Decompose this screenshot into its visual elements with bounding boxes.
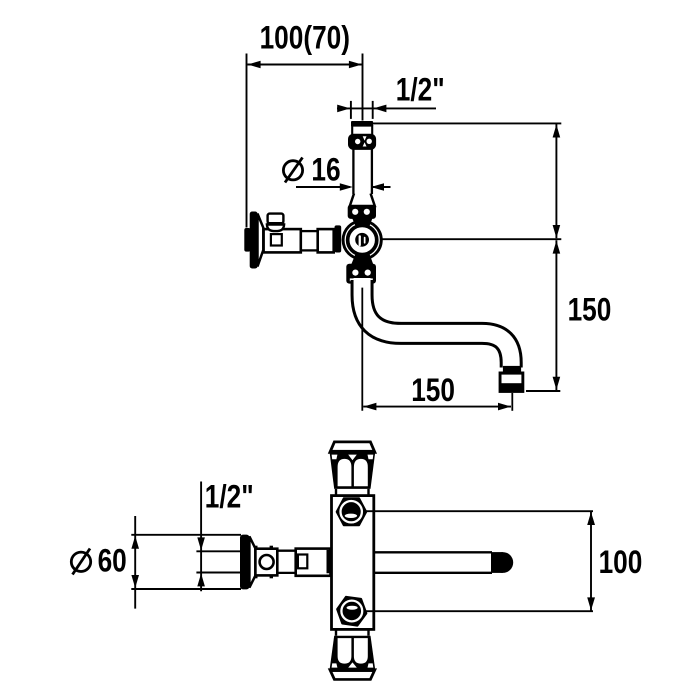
bottom dimension 150 arrow right	[498, 403, 511, 411]
spout pipe walls (top view)	[373, 551, 492, 553]
arm neck lower wall	[302, 249, 318, 251]
stop valve bonnet dome	[267, 225, 284, 232]
flange cone (top view)	[249, 536, 255, 587]
upper hex nut	[337, 499, 366, 526]
dimension 100 arrow lower	[587, 597, 595, 610]
screw slot left	[359, 235, 361, 246]
stop valve corner tabs	[254, 546, 257, 550]
dimension diameter-16 arrow left	[340, 183, 353, 191]
svg-text:60: 60	[98, 544, 127, 579]
dimension 1/2inch (front) tick left	[350, 101, 352, 119]
flange cone	[258, 214, 264, 267]
arm neck upper wall	[302, 230, 318, 232]
arm nut (top view)	[296, 549, 331, 576]
upper collar hole right	[364, 209, 370, 215]
handle neck left	[335, 489, 337, 496]
bottom extension line (spout outlet) to right dimension	[526, 390, 560, 392]
body circle inner ring	[348, 225, 377, 254]
riser pipe walls	[352, 149, 354, 194]
upper collar hole left	[352, 209, 358, 215]
union nut hole left	[355, 139, 360, 144]
aerator ring	[503, 366, 521, 372]
spout tube bore	[362, 278, 511, 368]
screw slot right	[364, 237, 366, 244]
upper hex leader line	[364, 510, 593, 512]
lower collar white stripe	[350, 278, 373, 281]
dimension diameter-60 extension line lower	[131, 588, 241, 590]
dimension diameter-16 symbol	[283, 158, 302, 183]
upper collar	[348, 205, 376, 219]
body circle outer ring	[343, 221, 381, 259]
dimension 100(70) extension line right	[362, 54, 364, 121]
svg-text:1/2": 1/2"	[205, 480, 254, 515]
dimension diameter-60 symbol	[71, 549, 90, 575]
upper collar joint fill	[351, 216, 374, 227]
lower hex leader line	[364, 610, 593, 612]
lower collar joint fill	[351, 254, 374, 265]
dimension 1/2inch (front) tick right	[372, 101, 374, 119]
dimension diameter-60 label	[98, 544, 127, 579]
wall flange plate	[250, 212, 258, 269]
dimension 1/2inch (front) line	[337, 107, 436, 109]
handle side sliver left	[332, 455, 338, 460]
handle side sliver right	[368, 455, 374, 460]
handle neck right	[367, 489, 369, 496]
bottom dimension 150 extension line right	[511, 393, 513, 411]
dimension 1/2inch (front) arrow right	[373, 105, 386, 113]
dimension diameter-16 leader left	[296, 186, 350, 188]
svg-text:150: 150	[568, 293, 612, 328]
arm nut	[318, 229, 334, 252]
union nut thread notch top	[363, 136, 367, 140]
dimension 1/2inch (top view) label	[205, 480, 254, 515]
stop valve body	[264, 229, 301, 252]
center extension line to right dimension	[366, 238, 561, 240]
lower collar hole right	[365, 270, 371, 276]
dimension diameter-16 label	[311, 153, 340, 188]
aerator body	[499, 372, 525, 393]
lower collar hole left	[352, 270, 358, 276]
svg-text:150: 150	[411, 374, 455, 409]
dimension diameter-60 line	[134, 516, 136, 609]
dimension 1/2inch (top view) line	[200, 482, 202, 592]
lower hex nut	[335, 596, 368, 626]
stop valve inner square	[271, 234, 282, 245]
dimension 100(70) extension line left	[246, 54, 248, 228]
dimension 100(70) arrow left	[248, 61, 261, 68]
stop valve body (top view)	[255, 549, 277, 576]
svg-text:16: 16	[311, 153, 340, 188]
dimension diameter-16 arrow right	[371, 183, 384, 191]
aerator white band	[502, 375, 522, 384]
stop valve spindle circle	[260, 555, 274, 569]
screw head center	[355, 233, 369, 247]
inlet pipe upper section walls	[351, 125, 353, 135]
svg-text:100: 100	[599, 546, 643, 581]
dimension diameter-60 arrow lower	[131, 575, 139, 588]
bottom cross handle (mirrored copy)	[330, 629, 376, 679]
arm-body junction bulge (top view)	[327, 550, 338, 573]
union nut thread notch bottom	[363, 142, 367, 146]
dimension 1/2inch (front) label	[396, 73, 445, 108]
bottom dimension 150 extension line left (through tube)	[361, 288, 363, 411]
union nut	[348, 134, 376, 150]
stop valve hat	[268, 214, 284, 224]
dimension 100(70) arrow right	[349, 61, 362, 68]
spout pipe rounded end	[491, 552, 503, 573]
top extension line to right dimension	[373, 122, 561, 124]
lower collar	[346, 264, 376, 284]
svg-text:100(70): 100(70)	[260, 21, 350, 56]
handle window right	[354, 459, 368, 486]
top cross handle	[330, 442, 376, 496]
dimension 100 line	[590, 512, 592, 611]
handle cap	[330, 442, 375, 453]
dimension 100 arrow upper	[587, 512, 595, 525]
handle bell	[330, 452, 376, 489]
handle center sliver	[348, 455, 357, 461]
dimension diameter-60 extension line upper	[131, 534, 241, 536]
wall flange plate (top view)	[240, 535, 250, 590]
union nut hole right	[367, 139, 372, 144]
dimension 1/2inch (front) arrow left	[337, 105, 350, 113]
dimension 100(70) label	[260, 21, 350, 56]
inlet cap (top threaded end)	[351, 121, 373, 127]
arm nut square	[298, 555, 307, 569]
svg-text:1/2": 1/2"	[396, 73, 445, 108]
wall stub	[244, 228, 250, 252]
dimension 1/2inch extension line lower	[196, 572, 241, 574]
dimension diameter-16 leader right	[373, 186, 391, 188]
dimension 150 (right) label	[568, 293, 612, 328]
handle cap bottom bar	[330, 450, 375, 454]
dimension 1/2inch extension line upper	[196, 550, 241, 552]
arm-body junction bulge	[335, 225, 342, 252]
riser flare walls	[349, 194, 354, 208]
bottom dimension 150 line	[363, 406, 511, 408]
dimension 1/2inch arrow upper	[197, 537, 205, 550]
dimension 1/2inch arrow lower	[197, 573, 205, 586]
handle window left	[338, 459, 352, 486]
faucet body (top view)	[332, 496, 374, 630]
bottom dimension 150 arrow left	[363, 403, 376, 411]
stop valve bonnet band	[267, 222, 284, 226]
dimension 100(70) line	[247, 64, 362, 66]
spout tube outer	[362, 280, 511, 368]
right vertical dimension line upper segment	[555, 124, 557, 238]
dimension diameter-60 arrow upper	[131, 536, 139, 549]
dimension 100 label	[599, 546, 643, 581]
right vertical dimension line lower segment (150)	[555, 240, 557, 390]
arm neck walls (top view)	[277, 550, 295, 552]
bottom dimension 150 label	[411, 374, 455, 409]
